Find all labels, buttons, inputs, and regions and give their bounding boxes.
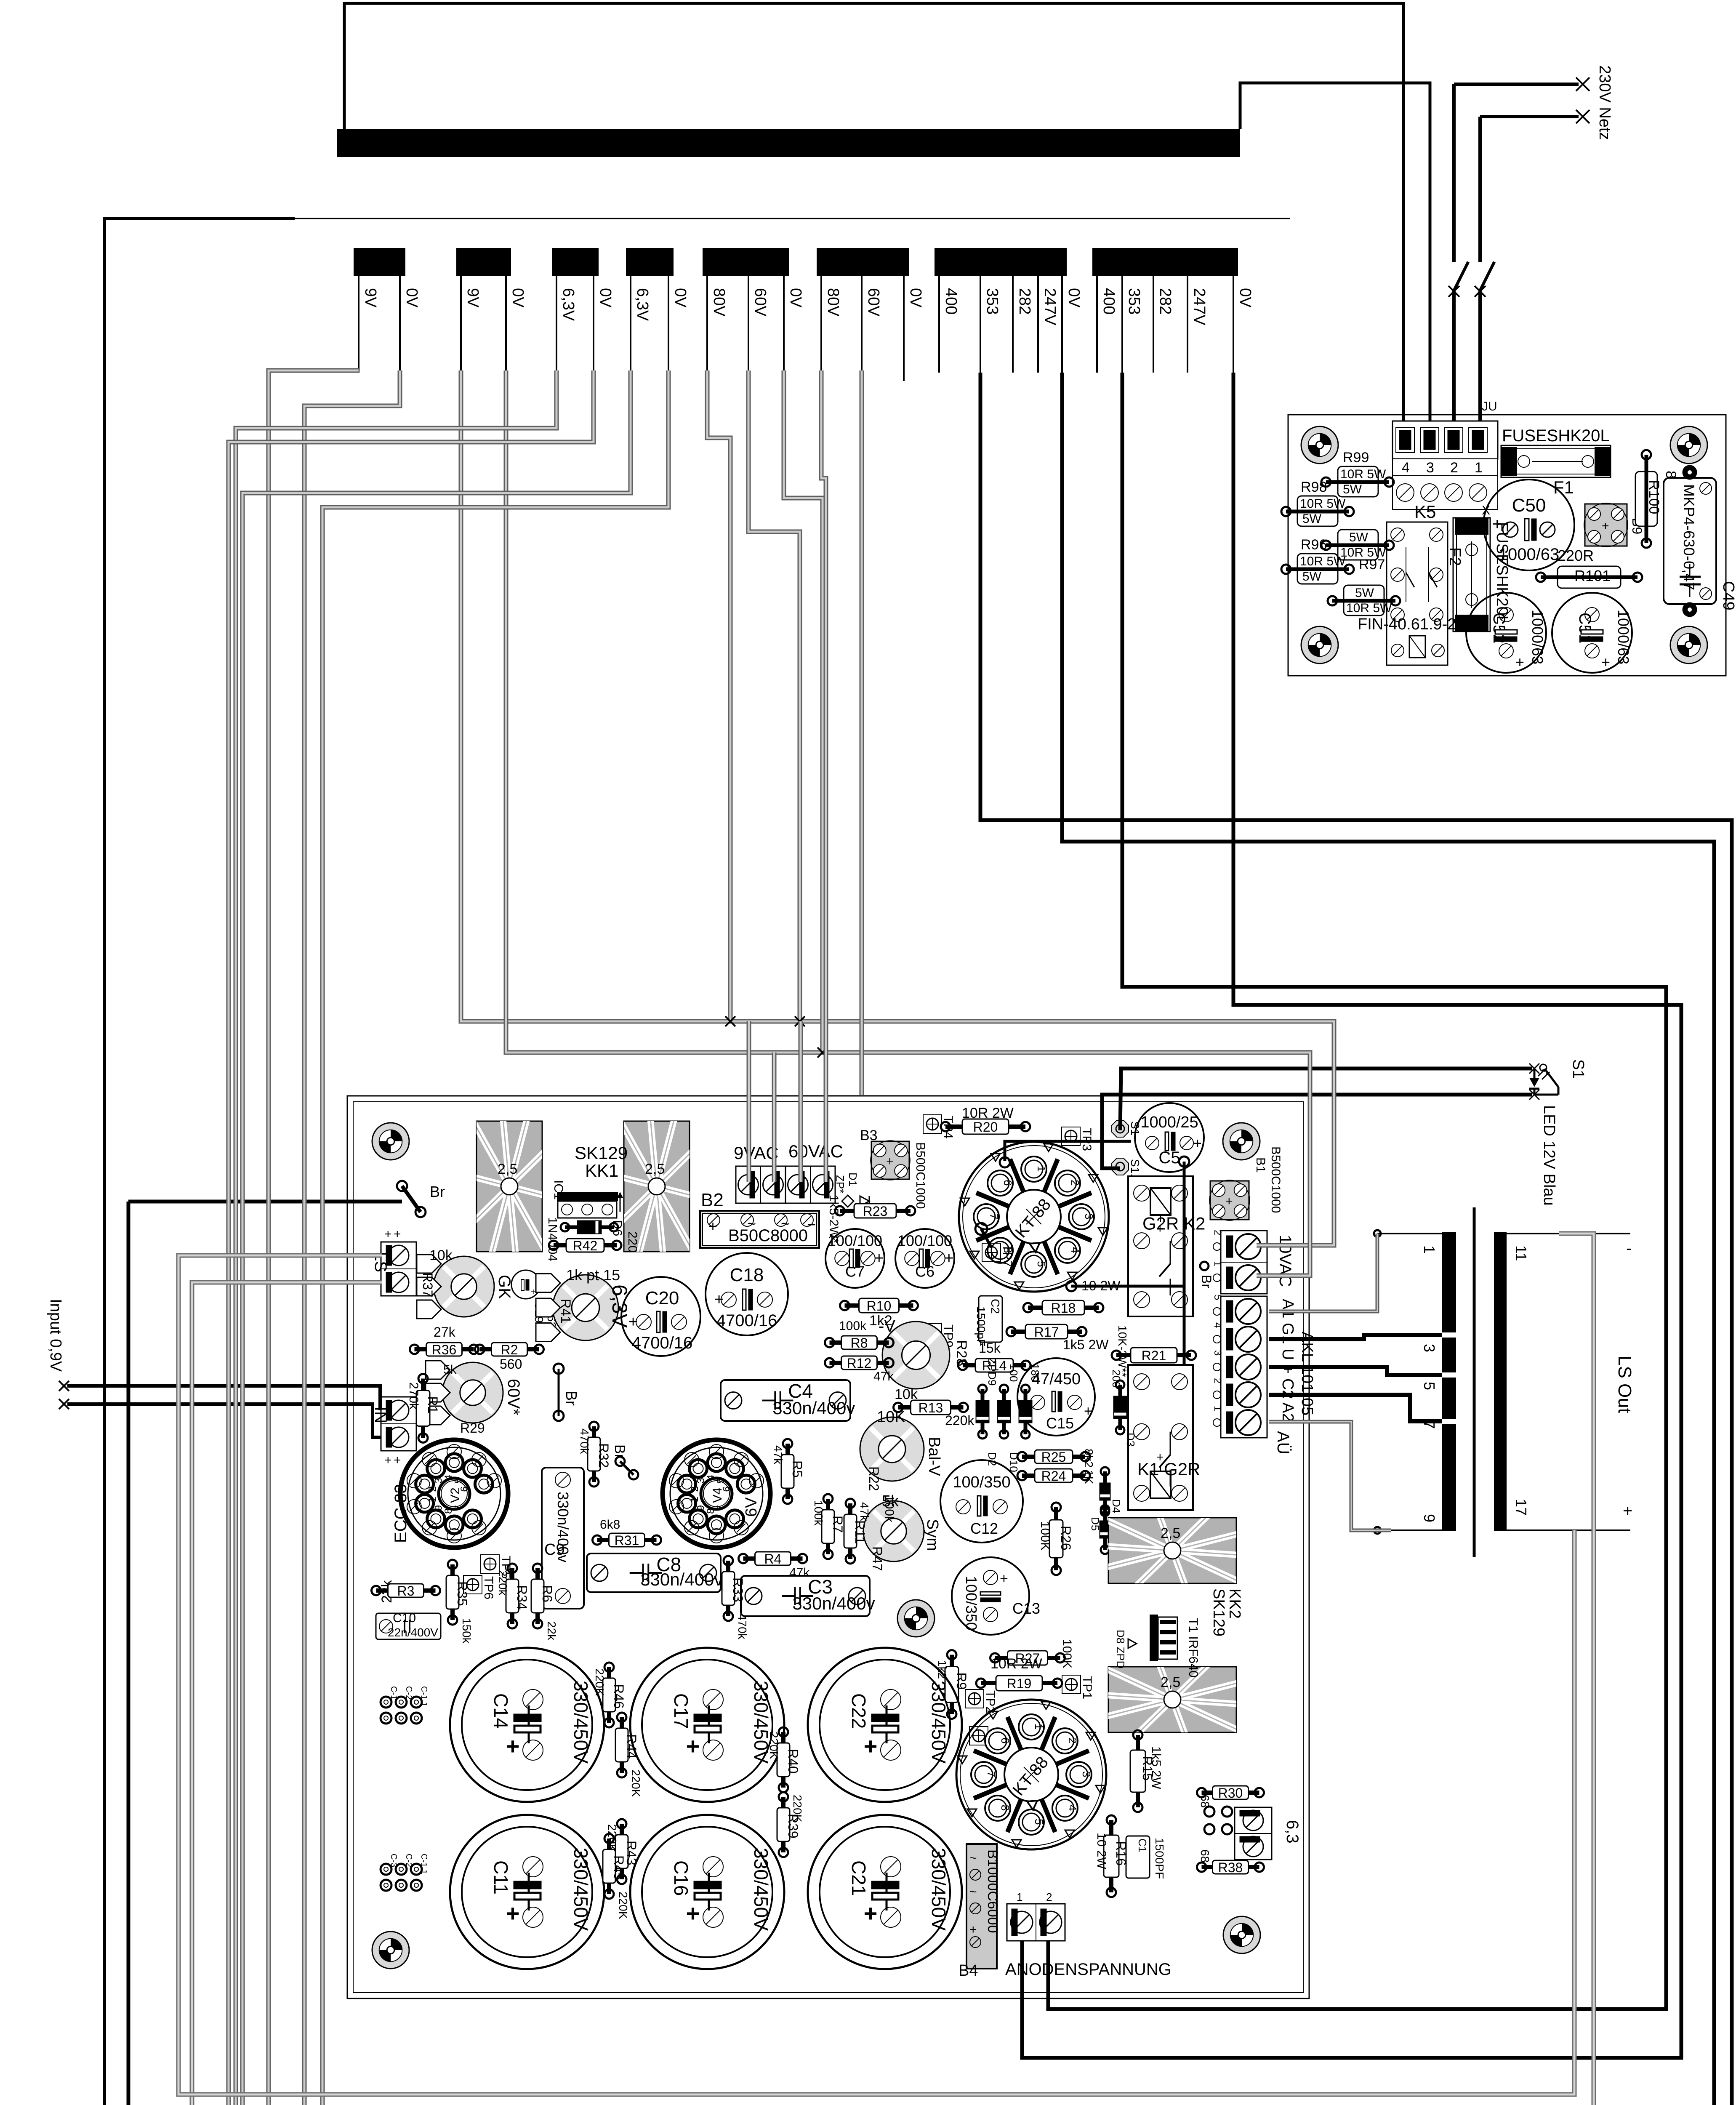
svg-text:8k2: 8k2 [1082, 1449, 1095, 1468]
relay K1 G2R [1128, 1365, 1200, 1510]
resistor R43 [615, 1819, 639, 1884]
svg-text:R10: R10 [867, 1298, 892, 1314]
svg-text:B2: B2 [701, 1190, 724, 1210]
test point TP6 [463, 1575, 495, 1599]
svg-text:TP6: TP6 [482, 1576, 495, 1599]
svg-text:4: 4 [1069, 1247, 1081, 1253]
svg-text:60V: 60V [865, 288, 882, 317]
svg-text:+: + [1515, 653, 1524, 671]
wire [1071, 1285, 1184, 1288]
svg-text:5W: 5W [1302, 512, 1322, 526]
svg-text:353: 353 [983, 288, 1001, 314]
svg-text:6,3V: 6,3V [559, 288, 577, 321]
svg-text:2,5: 2,5 [1161, 1525, 1180, 1541]
svg-text:0V: 0V [907, 288, 924, 308]
svg-text:10k: 10k [429, 1247, 453, 1263]
svg-text:60V: 60V [751, 288, 769, 317]
svg-text:9: 9 [1421, 1514, 1438, 1522]
svg-text:C14: C14 [490, 1693, 512, 1729]
relay G2R K2 [1128, 1176, 1205, 1316]
svg-text:R12: R12 [847, 1356, 872, 1371]
svg-text:2: 2 [1069, 1180, 1081, 1186]
svg-text:4: 4 [1402, 460, 1410, 476]
svg-text:100/100: 100/100 [828, 1232, 882, 1250]
svg-text:ANODENSPANNUNG: ANODENSPANNUNG [1005, 1960, 1172, 1979]
svg-text:282: 282 [1016, 288, 1033, 314]
pad Br right [1200, 1262, 1209, 1270]
svg-text:S1: S1 [1129, 1121, 1142, 1135]
tap 1 upper [1377, 1233, 1442, 1234]
svg-text:B3: B3 [860, 1127, 878, 1143]
svg-text:+: + [944, 1250, 953, 1267]
svg-text:B50C8000: B50C8000 [728, 1226, 808, 1245]
svg-text:100/350: 100/350 [963, 1576, 980, 1631]
wire [1022, 373, 1681, 2058]
resistor R42 [549, 1238, 621, 1253]
svg-text:330/450V: 330/450V [928, 1681, 950, 1764]
output transformer upper primary winding [1442, 1232, 1456, 1531]
svg-text:R9: R9 [954, 1673, 969, 1690]
svg-text:10R 5W: 10R 5W [1300, 554, 1346, 568]
test point TP7 [975, 1223, 987, 1235]
wire [1005, 1141, 1131, 1161]
test point TP4 [923, 1115, 955, 1139]
svg-text:220K: 220K [617, 1892, 630, 1919]
svg-text:V4: V4 [711, 1487, 724, 1503]
svg-text:R24: R24 [1041, 1468, 1066, 1484]
wire primary left-top-right [344, 3, 1403, 458]
svg-text:2,5: 2,5 [498, 1161, 517, 1177]
svg-text:R30: R30 [1218, 1785, 1243, 1801]
svg-text:22k: 22k [545, 1621, 558, 1641]
svg-text:+: + [394, 1453, 401, 1467]
svg-text:B1: B1 [1254, 1157, 1267, 1173]
svg-text:+: + [1193, 1135, 1202, 1151]
tube socket V2 ECC83 [400, 1440, 508, 1548]
svg-text:200: 200 [1110, 1370, 1123, 1388]
wire [95, 1202, 128, 2105]
capacitor C15 [1017, 1358, 1095, 1436]
resistor R38 [1197, 1860, 1264, 1875]
tap 247V block 7 [1037, 276, 1039, 373]
svg-text:80V: 80V [710, 288, 728, 317]
svg-text:10R 5W: 10R 5W [1346, 601, 1392, 615]
svg-text:2,5: 2,5 [645, 1161, 665, 1177]
resistor R2 [475, 1342, 544, 1357]
svg-text:K5: K5 [1414, 502, 1436, 522]
svg-text:9V: 9V [464, 288, 482, 308]
svg-text:R5: R5 [790, 1460, 805, 1478]
svg-text:100: 100 [1007, 1364, 1020, 1382]
capacitor C16 [630, 1815, 784, 1969]
wire lower OT gray vertical joins [1574, 1530, 1575, 1531]
svg-text:R40: R40 [785, 1749, 801, 1774]
wire [1102, 1095, 1532, 1168]
svg-text:100K: 100K [1038, 1521, 1052, 1551]
svg-text:V2: V2 [448, 1487, 462, 1503]
svg-text:+: + [506, 1900, 520, 1926]
svg-text:+: + [1000, 1571, 1008, 1587]
svg-text:0V: 0V [509, 288, 527, 308]
svg-text:Br: Br [1199, 1275, 1214, 1288]
svg-text:TP7: TP7 [1000, 1244, 1014, 1267]
terminal AKL 101-05 AÜ [1212, 1295, 1316, 1455]
potentiometer R28 -V [879, 1317, 969, 1402]
wire 0V b5 step [784, 370, 823, 1052]
output transformer upper core [1473, 1207, 1476, 1557]
svg-text:C13: C13 [1012, 1600, 1040, 1617]
svg-text:5: 5 [1033, 1819, 1045, 1825]
svg-text:D3: D3 [1124, 1433, 1137, 1447]
svg-text:R46: R46 [611, 1684, 626, 1709]
mains transformer core bar [337, 129, 1240, 157]
bridge pad Br top-left [397, 1181, 445, 1217]
resistor R99 [1321, 450, 1394, 497]
test point TP1 [1062, 1675, 1094, 1699]
svg-text:FUSESHK20L: FUSESHK20L [1502, 426, 1610, 445]
svg-text:+: + [1225, 1194, 1233, 1208]
svg-text:+: + [686, 1733, 700, 1759]
svg-text:T1 IRF640: T1 IRF640 [1186, 1618, 1200, 1678]
tube socket V3 bottom [956, 1700, 1106, 1849]
resistor R34 [506, 1564, 530, 1628]
wire 6,3V winding3 to lower 60VAC1 [236, 370, 826, 2105]
svg-text:7: 7 [985, 1771, 998, 1777]
svg-text:0V: 0V [596, 288, 614, 308]
svg-text:0V: 0V [1065, 288, 1083, 308]
svg-text:3: 3 [1212, 1350, 1223, 1356]
diode column ZPD9 D2 D10 [976, 1358, 1041, 1472]
svg-text:4: 4 [1212, 1322, 1223, 1328]
svg-text:1: 1 [1033, 1724, 1045, 1729]
svg-text:R25: R25 [1041, 1450, 1066, 1465]
svg-text:R33: R33 [730, 1577, 746, 1602]
svg-text:5: 5 [1212, 1295, 1223, 1300]
svg-text:C-1.1: C-1.1 [419, 1686, 429, 1707]
svg-text:K1 G2R: K1 G2R [1137, 1459, 1200, 1479]
svg-text:1000/63: 1000/63 [1615, 610, 1632, 664]
output transformer upper secondary winding [1494, 1232, 1507, 1531]
svg-text:R7: R7 [830, 1516, 845, 1533]
tap 0V block 3 [593, 276, 594, 373]
tube socket 6V driver [663, 1440, 770, 1548]
mounting hole fuse PCB bottom-right [1670, 626, 1707, 663]
wire [1120, 1068, 1532, 1130]
resistor R21 [1112, 1348, 1196, 1363]
svg-text:0V: 0V [671, 288, 689, 308]
transformer winding block 1 [354, 248, 405, 276]
tap 80V block 6 [820, 276, 822, 373]
input arrows upper [47, 1299, 381, 1437]
svg-text:+: + [1084, 1403, 1092, 1419]
svg-text:+: + [1601, 653, 1610, 671]
svg-text:2: 2 [1212, 1378, 1223, 1383]
resistor R32 [588, 1422, 611, 1487]
svg-text:C7: C7 [845, 1263, 865, 1280]
transformer winding block 5 [703, 248, 789, 276]
svg-text:A1 G1 U + C2 A2: A1 G1 U + C2 A2 [1279, 1299, 1297, 1422]
capacitor C2 1500pF [975, 1296, 1002, 1346]
svg-text:C20: C20 [645, 1288, 679, 1308]
wire 0V winding3 to lower heater [229, 370, 801, 2105]
diode D4 [1100, 1467, 1110, 1516]
svg-text:R23: R23 [863, 1204, 888, 1219]
capacitor C14 [450, 1648, 604, 1802]
svg-text:R37: R37 [420, 1273, 435, 1298]
svg-text:Input 0,9V: Input 0,9V [47, 1299, 64, 1372]
svg-text:B500C1000: B500C1000 [1269, 1146, 1283, 1213]
svg-text:220R: 220R [1558, 547, 1594, 564]
svg-text:0V: 0V [787, 288, 804, 308]
transformer winding block 6 [817, 248, 909, 276]
resistor R9 [945, 1650, 969, 1719]
svg-text:220: 220 [626, 1231, 639, 1252]
svg-text:8: 8 [999, 1805, 1012, 1811]
wire upper OT tap17 to LS [178, 1255, 1574, 2094]
svg-text:R22: R22 [866, 1466, 881, 1491]
capacitor C49 MKP4 [1664, 466, 1716, 616]
svg-text:C2: C2 [989, 1299, 1002, 1314]
svg-text:C-1.1: C-1.1 [419, 1854, 429, 1874]
svg-text:+: + [1492, 515, 1502, 533]
svg-text:1: 1 [689, 1497, 700, 1502]
fuse F2 [1446, 504, 1511, 631]
svg-text:S1: S1 [1569, 1059, 1587, 1079]
mounting hole upper top-right [1223, 1123, 1260, 1160]
svg-text:KK1: KK1 [585, 1161, 618, 1180]
svg-text:AÜ: AÜ [1274, 1431, 1292, 1455]
potentiometer R41 [536, 1266, 620, 1342]
capacitor C52 [1466, 593, 1546, 673]
svg-text:AKL 101-05: AKL 101-05 [1298, 1332, 1316, 1415]
transformer winding block 7 [935, 248, 1067, 276]
svg-text:R98: R98 [1301, 479, 1327, 495]
svg-text:400: 400 [1100, 288, 1118, 314]
svg-text:B4: B4 [959, 1962, 978, 1980]
bridge rectifier B4 [959, 1844, 1001, 1980]
wire secondary bus line [295, 218, 1290, 219]
svg-text:22n/400V: 22n/400V [388, 1626, 438, 1639]
svg-text:TP1: TP1 [1080, 1676, 1094, 1699]
svg-text:220k: 220k [945, 1413, 975, 1428]
svg-text:17: 17 [1512, 1499, 1530, 1516]
svg-text:1000/25: 1000/25 [1140, 1114, 1198, 1131]
svg-text:5W: 5W [1355, 586, 1374, 600]
svg-text:ZP*: ZP* [834, 1175, 847, 1193]
svg-text:+: + [886, 1154, 894, 1168]
tap 0V block 8 [1233, 276, 1234, 373]
svg-text:R99: R99 [1343, 450, 1369, 466]
mounting hole fuse PCB top-left [1301, 426, 1338, 464]
tap 400 block 7 [938, 276, 940, 373]
resistor R17 [1006, 1324, 1086, 1340]
svg-text:B500C1000: B500C1000 [913, 1142, 927, 1209]
tap 60V block 6 [861, 276, 863, 373]
wire 0V winding4 to lower 10VAC1 b [322, 370, 1319, 2105]
amplifier PCB upper outline [347, 1096, 1309, 1998]
svg-text:3: 3 [1426, 460, 1434, 476]
bridge rectifier B1 [1209, 1180, 1250, 1220]
svg-text:R45: R45 [611, 1855, 626, 1880]
svg-text:D4: D4 [1110, 1499, 1123, 1513]
svg-text:R21: R21 [1142, 1348, 1166, 1363]
transformer winding block 4 [626, 248, 674, 276]
pad cluster top [381, 1697, 391, 1708]
wire run to upper 9VAC 2 [772, 1052, 777, 1182]
svg-text:R2: R2 [501, 1342, 518, 1357]
svg-text:10VAC: 10VAC [1276, 1235, 1294, 1287]
svg-text:G2R K2: G2R K2 [1142, 1214, 1205, 1234]
svg-text:3: 3 [1421, 1344, 1438, 1352]
tap 282 block 8 [1153, 276, 1154, 373]
capacitor C22 [808, 1648, 962, 1802]
svg-text:60VAC: 60VAC [788, 1141, 843, 1161]
svg-text:-V: -V [879, 1317, 895, 1335]
svg-text:R1: R1 [425, 1396, 440, 1414]
svg-text:Bal-V: Bal-V [925, 1437, 943, 1476]
potentiometer R29 60V [426, 1361, 523, 1436]
svg-text:247V: 247V [1041, 288, 1059, 325]
svg-text:80V: 80V [824, 288, 842, 317]
wire [1183, 1162, 1186, 1508]
resistor R18 [1023, 1300, 1103, 1316]
terminal 6,3 [1235, 1807, 1302, 1860]
tap 0V block 5 [783, 276, 785, 373]
transformer winding block 2 [456, 248, 511, 276]
diode D6 1N4004 [546, 1217, 624, 1261]
resistor R98 [1281, 479, 1354, 526]
svg-text:180: 180 [1029, 1364, 1041, 1382]
svg-text:R18: R18 [1051, 1300, 1076, 1316]
resistor R16 [1104, 1815, 1129, 1897]
pad cluster bottom [381, 1864, 391, 1875]
tap 60V block 5 [748, 276, 749, 373]
svg-text:D1: D1 [847, 1172, 859, 1186]
svg-text:1000/63: 1000/63 [1529, 610, 1546, 664]
wire [1269, 1395, 1442, 1421]
svg-text:1000/63: 1000/63 [1499, 545, 1560, 564]
svg-text:6,3V: 6,3V [608, 1284, 631, 1328]
svg-text:C17: C17 [670, 1693, 692, 1729]
svg-text:47k: 47k [873, 1370, 894, 1383]
resistor R101 [1536, 566, 1642, 588]
tap 6,3V block 3 [556, 276, 557, 373]
svg-text:D2: D2 [986, 1452, 998, 1466]
svg-text:220k: 220k [496, 1570, 509, 1596]
svg-text:+: + [1602, 519, 1609, 533]
svg-text:F2: F2 [1446, 547, 1464, 566]
svg-text:270k: 270k [407, 1382, 421, 1410]
resistor R27 [990, 1651, 1065, 1666]
svg-text:2: 2 [689, 1486, 700, 1492]
svg-text:C11: C11 [490, 1860, 512, 1894]
svg-text:11: 11 [1512, 1245, 1530, 1261]
pad Br mid [612, 1444, 638, 1479]
svg-text:R4: R4 [764, 1551, 782, 1567]
svg-text:R44: R44 [624, 1734, 639, 1759]
capacitor C17 [630, 1648, 784, 1802]
svg-text:1: 1 [1035, 1166, 1048, 1172]
svg-text:C12: C12 [970, 1520, 998, 1537]
svg-text:6,3: 6,3 [1283, 1820, 1302, 1844]
svg-text:R36: R36 [432, 1342, 457, 1357]
svg-text:150k: 150k [460, 1618, 473, 1644]
svg-text:1: 1 [427, 1497, 438, 1502]
test point TP8 [969, 1727, 1001, 1751]
switch S1 contact a [1454, 262, 1468, 290]
tap 9V block 1 [358, 276, 359, 373]
bridge rectifier B2 [700, 1190, 819, 1248]
svg-text:C9: C9 [544, 1541, 565, 1559]
resistor R44 [615, 1713, 639, 1777]
svg-text:C10: C10 [393, 1611, 416, 1625]
capacitor C10 [376, 1611, 441, 1639]
svg-text:Br: Br [563, 1391, 580, 1406]
potentiometer R22 Bal-V [860, 1408, 943, 1491]
svg-text:TP3: TP3 [1080, 1128, 1094, 1151]
svg-text:C15: C15 [1046, 1415, 1074, 1432]
resistor R100 [1635, 450, 1662, 548]
capacitor C11 [450, 1815, 604, 1969]
svg-text:9V: 9V [362, 288, 379, 308]
wire 9V winding2 to upper 10VAC a [461, 370, 1334, 1245]
diode D3 [1114, 1380, 1126, 1434]
wire OT tap1 upper to board [1269, 1234, 1377, 1311]
svg-text:1: 1 [1212, 1406, 1223, 1411]
svg-text:5: 5 [1035, 1261, 1048, 1267]
tap 0V block 7 [1061, 276, 1063, 373]
transformer winding block 8 [1092, 248, 1238, 276]
mounting hole fuse PCB bottom-left [1301, 626, 1338, 663]
potentiometer GK R37 [417, 1247, 514, 1319]
svg-text:1: 1 [1017, 1891, 1022, 1903]
capacitor C21 [808, 1815, 962, 1969]
svg-text:LED 12V Blau: LED 12V Blau [1540, 1105, 1558, 1206]
svg-text:2: 2 [1212, 1230, 1223, 1235]
svg-text:+: + [714, 1291, 724, 1308]
svg-text:+: + [506, 1733, 520, 1759]
wire 0V winding1 to lower 10VAC1 a [304, 370, 1336, 2105]
resistor R95 [1328, 585, 1400, 616]
tap 9V block 2 [460, 276, 462, 373]
svg-text:4700/16: 4700/16 [632, 1334, 693, 1352]
svg-text:Sym: Sym [924, 1519, 941, 1551]
svg-text:R17: R17 [1034, 1324, 1059, 1340]
svg-text:6k8: 6k8 [600, 1518, 620, 1532]
resistor R46 [603, 1663, 626, 1727]
wire [1048, 373, 1666, 2009]
tube socket V1 top [959, 1142, 1109, 1292]
wire [980, 373, 1732, 2105]
svg-text:1k5 2W: 1k5 2W [1149, 1746, 1163, 1789]
resistor R6 [531, 1564, 555, 1628]
tap 6,3V block 4 [630, 276, 631, 373]
pad Br centre [554, 1364, 580, 1421]
svg-text:KK2: KK2 [1226, 1588, 1243, 1619]
switch S1 contact b [1480, 262, 1494, 290]
voltage regulator IC1 [551, 1180, 623, 1218]
capacitor C4 [721, 1380, 855, 1421]
svg-text:220K: 220K [791, 1795, 804, 1823]
wire [1454, 83, 1579, 86]
svg-text:47k: 47k [772, 1445, 785, 1465]
svg-text:-: - [1626, 1239, 1632, 1258]
svg-text:7: 7 [988, 1213, 1000, 1219]
terminal 10VAC [1212, 1230, 1294, 1294]
test point TP3 [1062, 1127, 1094, 1151]
svg-text:R34: R34 [514, 1585, 530, 1610]
svg-text:60V*: 60V* [504, 1379, 523, 1415]
